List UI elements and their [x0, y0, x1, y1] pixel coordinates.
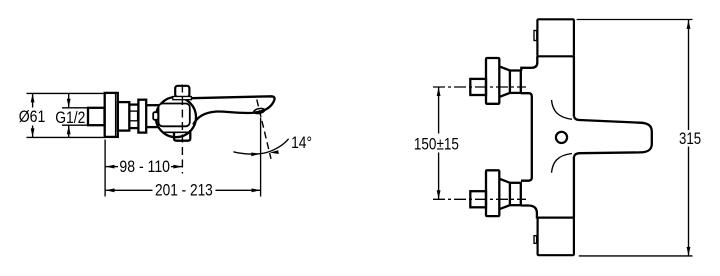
svg-text:315: 315 [679, 129, 701, 148]
svg-text:150±15: 150±15 [414, 135, 459, 154]
svg-text:14°: 14° [291, 133, 312, 152]
svg-text:98 - 110: 98 - 110 [119, 157, 170, 176]
svg-text:Ø61: Ø61 [19, 107, 46, 126]
svg-text:201 - 213: 201 - 213 [155, 181, 213, 200]
svg-text:G1/2: G1/2 [55, 108, 85, 127]
